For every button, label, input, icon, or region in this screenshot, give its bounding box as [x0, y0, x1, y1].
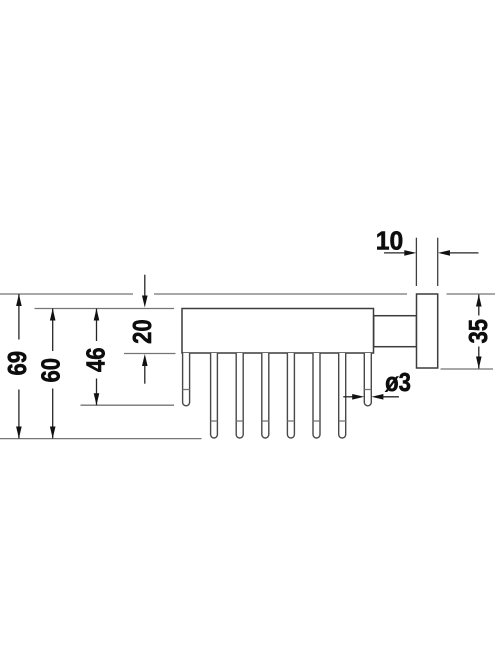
pin 3 sleeve line [236, 420, 243, 422]
reference line: plate top level (left segment) [0, 293, 133, 295]
svg-text:ø3: ø3 [385, 368, 411, 397]
dimension 35 line upper [478, 295, 480, 316]
pin 6 [313, 353, 320, 438]
pin 7 [339, 353, 346, 438]
pin 5 [287, 353, 294, 438]
wall plate [417, 294, 438, 368]
dimension 20 arrow down (outside, to bar top) [142, 296, 148, 308]
pin 7 sleeve line [339, 420, 346, 422]
dimension 46 line upper [96, 309, 98, 342]
pin 6 sleeve line [313, 420, 320, 422]
towel bar body [182, 309, 374, 354]
dimension 35 arrow down [476, 357, 482, 369]
dimension d3 line left [343, 396, 353, 398]
reference line: plate top level (right segment) [154, 293, 407, 295]
svg-text:60: 60 [37, 358, 66, 383]
reference line: bar bottom level (for 20) [124, 353, 176, 355]
pin 8 sleeve line [364, 389, 371, 391]
dimension 60 arrow up [50, 309, 56, 321]
dimension 20 stem above [144, 275, 146, 297]
dimension 69 line lower [18, 390, 20, 439]
pin 1 (short) [183, 353, 190, 406]
dimension 60 arrow down [50, 427, 56, 439]
dimension 10 line right [449, 252, 479, 254]
pin 4 sleeve line [262, 420, 269, 422]
dimension 69 line upper [18, 294, 20, 340]
dimension d3 line right [382, 396, 399, 398]
dimension 20 arrow up (outside, to bar bottom) [142, 354, 148, 366]
svg-text:46: 46 [82, 348, 111, 373]
reference line: plate bottom level (for 35) [441, 368, 494, 370]
pin 2 [211, 353, 218, 438]
svg-text:10: 10 [376, 227, 403, 256]
dimension 46 arrow down [94, 393, 100, 405]
dimension d3 arrow right [352, 394, 364, 400]
dimension 46 arrow up [94, 309, 100, 321]
dimension 10 line left [384, 252, 405, 254]
dimension 60 line upper [52, 309, 54, 352]
dimension 69 arrow down [16, 427, 22, 439]
reference line: long pin bottom level (for 69/60) [0, 438, 202, 440]
pin 4 [262, 353, 269, 438]
dimension 10 arrow left [438, 250, 450, 256]
dimension 69 arrow up [16, 294, 22, 306]
dimension d3 arrow left [371, 394, 383, 400]
pin 1 sleeve line [183, 389, 190, 391]
mounting arm [374, 316, 417, 347]
dimension 35 arrow up [476, 295, 482, 307]
pin 8 (short) [364, 353, 371, 406]
pin 3 [236, 353, 243, 438]
pin 2 sleeve line [211, 420, 218, 422]
dimension 10 arrow right [404, 250, 416, 256]
dimension 35 line lower [478, 347, 480, 369]
reference line: short pin bottom level (for 46) [81, 404, 175, 406]
extension line: plate left (for 10) [415, 238, 417, 286]
dimension 46 line lower [96, 379, 98, 406]
dimension 60 line lower [52, 389, 54, 439]
svg-text:69: 69 [3, 351, 32, 376]
dimension 20 stem below [144, 365, 146, 384]
reference line: bar top level [35, 308, 175, 310]
reference line: plate top level (for 35) [447, 293, 496, 295]
pin 5 sleeve line [287, 420, 294, 422]
svg-text:35: 35 [464, 319, 493, 344]
svg-text:20: 20 [128, 319, 157, 344]
extension line: plate right (for 10) [437, 238, 439, 286]
